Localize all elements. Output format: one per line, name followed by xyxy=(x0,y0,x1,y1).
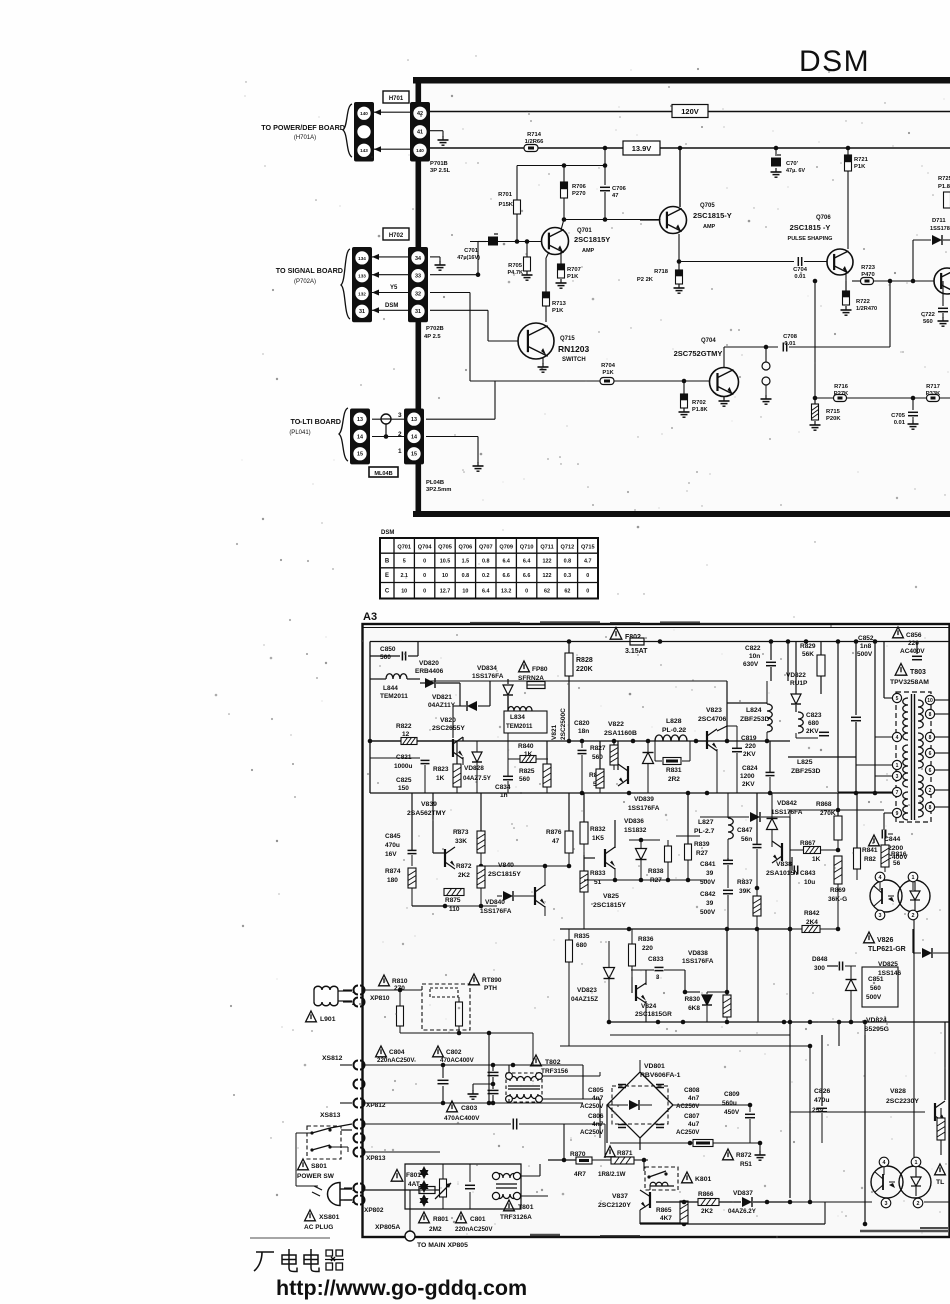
svg-text:2: 2 xyxy=(352,1199,355,1205)
wire: y1143 branch xyxy=(607,1105,750,1145)
transistor Q715 xyxy=(518,323,554,359)
wire: x865 vertical xyxy=(863,1035,868,1226)
ground (Q715) xyxy=(538,363,549,372)
scan speckle xyxy=(215,55,950,1238)
svg-text:B: B xyxy=(385,559,390,565)
svg-text:132: 132 xyxy=(358,291,366,296)
capacitor C701 47u16V xyxy=(457,234,498,261)
transistor V820 2SC2655Y xyxy=(417,717,465,765)
svg-text:134: 134 xyxy=(358,256,366,261)
capacitor C801 220nAC250V xyxy=(455,1164,493,1233)
wire: Q706 emitter xyxy=(845,274,847,281)
transformer T802 TRF3156 xyxy=(506,1055,569,1103)
wire: LTI pin13 right to y381 xyxy=(426,381,495,419)
resistor R872 2K2 xyxy=(456,863,485,906)
svg-text:31: 31 xyxy=(359,309,365,315)
capacitor C70' 47u6V xyxy=(771,146,805,174)
resistor R721 P1K xyxy=(845,146,869,171)
svg-text:6.6: 6.6 xyxy=(523,573,531,579)
resistor R810 270 xyxy=(365,975,422,1033)
svg-text:Q710: Q710 xyxy=(520,545,534,551)
wire: LTI pin13 link xyxy=(372,418,404,420)
resistor R826 56 xyxy=(589,741,605,793)
ground (R715) xyxy=(810,421,821,430)
wire: x788 vertical xyxy=(787,642,789,682)
transistor V823 2SC4706 xyxy=(696,707,727,793)
wire: switch wires xyxy=(296,1124,352,1186)
wire: C708 up to emitter bus xyxy=(889,281,891,347)
capacitor C850 560 xyxy=(370,642,418,662)
label PL04B 3P2.5mm xyxy=(426,480,451,493)
wire: pin31 link DSM xyxy=(372,303,408,313)
svg-text:(PL041): (PL041) xyxy=(289,430,310,436)
svg-text:6.4: 6.4 xyxy=(482,589,490,595)
connector XP802 xyxy=(344,1184,384,1215)
svg-text:H702: H702 xyxy=(389,233,404,239)
capacitor C843 10u xyxy=(792,857,816,886)
diode VD837 04AZ6.2Y xyxy=(728,1190,757,1215)
wire: pin34 to ground xyxy=(430,257,440,262)
svg-text:2: 2 xyxy=(352,1001,355,1007)
wire: Q701 collector xyxy=(561,219,564,230)
svg-text:4.7: 4.7 xyxy=(584,559,592,565)
resistor R833 51 xyxy=(580,855,606,929)
diode VD838 1SS176FA xyxy=(682,950,729,1022)
fuse F802 3.15AT xyxy=(610,628,648,656)
svg-text:Q712: Q712 xyxy=(561,545,575,551)
svg-text:1: 1 xyxy=(398,448,402,455)
svg-text:62: 62 xyxy=(564,589,570,595)
resistor R828 220K xyxy=(565,642,593,742)
svg-text:TO LTI BOARD: TO LTI BOARD xyxy=(291,417,341,426)
svg-text:Q711: Q711 xyxy=(540,545,553,551)
ground (C802 area) xyxy=(468,1090,479,1099)
component loop frame wire xyxy=(405,1164,521,1209)
resistor R717 P33K xyxy=(926,384,941,402)
spark gap arrows xyxy=(420,1166,429,1207)
wire: xp813 wires xyxy=(364,1124,605,1158)
wire: pin42 to pin140 link xyxy=(374,109,410,115)
svg-text:0: 0 xyxy=(423,589,426,595)
resistor R825 560 xyxy=(519,741,551,793)
ground (LTI pin14) xyxy=(473,462,484,471)
svg-text:Q706: Q706 xyxy=(459,545,473,551)
capacitor C809 560u 450V xyxy=(673,1091,755,1143)
svg-text:6.6: 6.6 xyxy=(502,573,510,579)
svg-text:122: 122 xyxy=(543,559,552,565)
resistor R873 33K xyxy=(453,793,485,868)
node junction 13.9V/C706 xyxy=(603,146,608,151)
svg-text:133: 133 xyxy=(358,274,366,279)
capacitor C834 1n xyxy=(495,733,513,799)
resistor R822 12 xyxy=(370,723,417,745)
thermistor RT890 PTH xyxy=(422,974,502,1033)
wire: y1202 right xyxy=(790,1200,950,1205)
capacitor C806 4n7 AC250V xyxy=(580,1113,626,1136)
ground (test point) xyxy=(761,395,772,404)
resistor R872b R51 xyxy=(693,1140,762,1169)
varistor R801 2M2 xyxy=(419,1164,451,1233)
capacitor C822 10n 630V xyxy=(743,642,776,682)
resistor R832 1K5 xyxy=(580,793,606,855)
svg-text:A3: A3 xyxy=(363,611,377,623)
resistor R713 P1K xyxy=(543,292,567,322)
wire: x790 long vertical xyxy=(788,817,793,1198)
wire: 13.9V bus xyxy=(429,147,950,149)
inductor L901 xyxy=(306,986,352,1023)
optocoupler V826 TLP621-GR xyxy=(870,872,930,920)
transistor V821 2SC2500C xyxy=(551,708,628,786)
transistor Q704 xyxy=(710,368,739,397)
capacitor C824 1200 2KV xyxy=(740,741,775,793)
label P701B 3P 2.5L xyxy=(430,161,451,174)
wire: pin33 link xyxy=(372,272,408,278)
label TO POWER/DEF BOARD xyxy=(261,123,345,141)
capacitor C833 xyxy=(631,956,700,994)
pin numbers 3 2 1 xyxy=(398,412,402,455)
inductor L844 TEM2011 xyxy=(370,674,420,700)
resistor R839 R27 xyxy=(676,793,710,880)
svg-text:0: 0 xyxy=(423,573,426,579)
optocoupler (lower right) xyxy=(871,1157,931,1208)
svg-text:0: 0 xyxy=(586,589,589,595)
svg-text:12.7: 12.7 xyxy=(440,589,451,595)
resistor R836 220 xyxy=(629,929,654,977)
diode D711 1SS178F xyxy=(913,218,950,245)
svg-text:3: 3 xyxy=(398,412,402,419)
test point circles xyxy=(762,345,770,396)
wire: thick bottom border of upper schematic xyxy=(413,511,950,517)
resistor R837 39K xyxy=(737,879,761,1022)
svg-text:Q707: Q707 xyxy=(479,545,493,551)
wire: A3 bus y793 xyxy=(370,791,893,796)
wire: collector bus y219 xyxy=(562,217,660,222)
node label 120V xyxy=(672,105,708,118)
svg-text:ML04B: ML04B xyxy=(374,471,392,477)
wire: R870 bus y1160 xyxy=(548,1124,648,1162)
svg-text:L901: L901 xyxy=(320,1016,336,1023)
svg-text:2.1: 2.1 xyxy=(400,573,408,579)
resistor R874 180 xyxy=(385,868,416,906)
diode VD839 label xyxy=(628,796,660,812)
connector XP810 xyxy=(343,986,390,1008)
diode VD824 S5295G label xyxy=(864,1017,889,1033)
wire: 120V bus xyxy=(429,111,950,113)
svg-text:0.8: 0.8 xyxy=(564,559,572,565)
label R725 P1.8 xyxy=(938,176,950,208)
resistor R831 2R2 xyxy=(655,741,690,783)
wire: VD842 bus y817 xyxy=(790,808,884,817)
resistor R875 110 xyxy=(412,889,464,914)
resistor R827 560 xyxy=(590,741,618,770)
transistor Q706 xyxy=(827,249,853,275)
diode VD839 (bus) xyxy=(643,741,654,793)
label Q701 2SC1815Y AMP xyxy=(574,228,610,254)
ground (R718) xyxy=(674,284,685,293)
ground (R722) xyxy=(841,306,852,315)
svg-text:Q705: Q705 xyxy=(438,545,452,551)
connector XS812/XP812 xyxy=(322,1055,386,1109)
resistor R706 P270 xyxy=(561,166,587,220)
capacitor C845 470u 16V xyxy=(385,793,417,866)
brace for signal board xyxy=(341,249,350,319)
resistor (edge r1) xyxy=(937,1108,945,1155)
diode VD825 1SS146 xyxy=(878,929,950,977)
connector P701B right strip xyxy=(410,102,430,162)
wire: Q715 base from DSM pin xyxy=(488,312,518,342)
svg-text:XS812: XS812 xyxy=(322,1055,343,1062)
label Q705 2SC1815-Y AMP xyxy=(693,203,732,230)
svg-text:Q704: Q704 xyxy=(418,545,433,551)
wire: A3 bus y929 xyxy=(560,927,840,932)
bridge VD801 RBV606FA-1 xyxy=(607,1060,681,1150)
resistor R867 1K xyxy=(790,840,840,863)
svg-text:10.5: 10.5 xyxy=(440,559,451,565)
wire: 605 down to C706 xyxy=(604,148,606,185)
wire: Q705 collector to 13.9V xyxy=(678,146,683,207)
resistor R869 36K-G xyxy=(828,856,847,929)
label gddq chinese xyxy=(254,1249,344,1272)
wire: V839 bottom bus xyxy=(412,904,497,909)
capacitor D848 300 xyxy=(812,956,856,972)
svg-text:TO SIGNAL BOARD: TO SIGNAL BOARD xyxy=(276,266,343,275)
svg-text:0.8: 0.8 xyxy=(462,573,470,579)
svg-text:Q701: Q701 xyxy=(397,545,411,551)
svg-text:S801: S801 xyxy=(311,1163,327,1170)
wire: Q701 emitter to R713 xyxy=(546,252,549,292)
wire: A3 bus y1035 xyxy=(560,1022,865,1202)
wire: y880 branch xyxy=(584,878,707,883)
ground (R705) xyxy=(522,271,533,280)
connector left strip (to power/def board) xyxy=(354,102,374,162)
capacitor C841 39 500V xyxy=(700,858,733,888)
capacitor C803 470AC400V xyxy=(444,1101,517,1130)
label Q704 2SC752GTMY xyxy=(674,338,723,358)
svg-text:143: 143 xyxy=(360,148,368,153)
wire: R715 vertical drop xyxy=(813,279,818,398)
resistor R871 1R8/2.1W xyxy=(598,1146,634,1178)
label P702B 4P 2.5 xyxy=(424,326,444,340)
label DSM (table) xyxy=(381,530,394,536)
ground (C722) xyxy=(938,317,949,326)
resistor R718 P2 2K xyxy=(637,259,683,284)
switch S801 POWER SW xyxy=(297,1126,341,1180)
wire: x875 vertical xyxy=(874,642,876,793)
fuse FP80 SFRN2A xyxy=(508,661,548,689)
resistor R714 xyxy=(524,132,544,152)
resistor R715 P20K xyxy=(812,398,842,422)
svg-text:AC PLUG: AC PLUG xyxy=(304,1224,333,1231)
svg-text:TO MAIN XP805: TO MAIN XP805 xyxy=(417,1242,468,1249)
wire: xp812 top wire xyxy=(364,1063,583,1068)
wire: pin31 DSM to Q715 xyxy=(430,310,488,311)
diode VD820 ERB4406 xyxy=(415,660,460,706)
inductor L824 ZBF253D xyxy=(727,681,772,741)
transistor Q707 (edge) xyxy=(934,268,950,294)
capacitor C804 220nAC250V xyxy=(376,1046,449,1103)
wire: transformer left stubs xyxy=(838,642,892,831)
wire: R723 to right bus xyxy=(874,279,934,284)
svg-text:122: 122 xyxy=(543,573,552,579)
transformer T803 xyxy=(892,692,950,822)
label ML04B xyxy=(369,467,398,477)
wire: A3 box border xyxy=(363,624,950,1237)
wire: A3 bus y741 xyxy=(368,739,790,744)
title DSM xyxy=(799,45,870,78)
resistor R840 1K xyxy=(508,743,548,763)
inductor L834 TEM2011 xyxy=(490,681,547,733)
wire: y1033 branch xyxy=(400,1031,533,1065)
wire: RT890 drop xyxy=(488,1033,490,1103)
diode VD821 04AZ11Y xyxy=(428,694,490,738)
capacitor C805 4n7 AC250V xyxy=(580,1085,626,1111)
connector P702B right strip xyxy=(408,247,428,322)
resistor R865 4K7 xyxy=(656,1200,688,1223)
capacitor C821 1000u xyxy=(370,754,430,770)
wire: A3 bottom bus xyxy=(640,1202,825,1226)
svg-text:TO POWER/DEF BOARD: TO POWER/DEF BOARD xyxy=(261,123,345,132)
wire: pin33 to C701 xyxy=(430,242,486,278)
svg-text:140: 140 xyxy=(360,111,368,116)
diode VD834 1SS176FA xyxy=(472,665,513,710)
wire: R721 to Q706 collector xyxy=(847,171,849,249)
transistor V837 2SC2120Y xyxy=(598,1186,687,1225)
capacitor C852 1n8 500V xyxy=(851,635,874,792)
label H702 xyxy=(383,228,409,240)
capacitor C722 560 xyxy=(921,281,948,325)
svg-text:XS813: XS813 xyxy=(320,1112,341,1119)
svg-text:14: 14 xyxy=(357,434,363,440)
inductor C823 680 2KV coil xyxy=(796,712,829,738)
label TO SIGNAL BOARD xyxy=(276,266,343,285)
svg-text:C: C xyxy=(385,589,390,595)
svg-text:Q709: Q709 xyxy=(499,545,513,551)
resistor R705 P4.7K xyxy=(507,241,530,276)
wire: Q701 emitter to R707 xyxy=(560,252,562,264)
label Q715 RN1203 SWITCH xyxy=(558,336,589,363)
wire: x838 vertical xyxy=(837,642,839,793)
transistor V822 2SA1160B xyxy=(604,721,637,737)
label XP805A xyxy=(375,1190,410,1231)
svg-text:H701: H701 xyxy=(389,96,404,102)
svg-text:(P702A): (P702A) xyxy=(294,279,316,285)
wire: Q704 collector to C708 xyxy=(724,347,778,367)
wire: pin32 link YS xyxy=(372,285,408,296)
resistor R707 P1K xyxy=(558,264,581,280)
ground (C705) xyxy=(908,420,919,429)
svg-text:Q715: Q715 xyxy=(581,545,595,551)
svg-text:0.3: 0.3 xyxy=(564,573,572,579)
transistor V824 2SC1815GR xyxy=(632,970,672,1022)
ground (C70') xyxy=(771,168,782,177)
svg-text:15: 15 xyxy=(357,452,363,458)
wire: pin140b link xyxy=(374,146,410,152)
capacitor C808 4n7 AC250V xyxy=(656,1085,700,1111)
plug XS801 AC PLUG xyxy=(304,1183,352,1232)
transistor V840 2SC1815Y xyxy=(488,862,545,916)
inductor L825 ZBF253D xyxy=(788,757,856,775)
diode VD836 1S1832 xyxy=(624,818,660,880)
resistor R838 R27 xyxy=(648,840,672,884)
capacitor C706 xyxy=(600,186,627,219)
wire: thick top border of upper schematic xyxy=(413,77,950,84)
diode VD823 04AZ15Z xyxy=(571,941,615,1022)
svg-text:0.2: 0.2 xyxy=(482,573,490,579)
node label 13.9V xyxy=(623,141,660,155)
capacitor C844 2200 AC400V xyxy=(869,830,909,862)
brace for LTI board xyxy=(339,408,348,461)
wire: Q704 emitter xyxy=(723,397,725,399)
svg-text:1.5: 1.5 xyxy=(462,559,470,565)
capacitor C704 xyxy=(793,257,827,280)
wire: A3 bus y1022 xyxy=(607,1020,950,1025)
svg-text:0: 0 xyxy=(586,573,589,579)
resistor R722 1/2R470 xyxy=(843,281,878,312)
wire: y866 branch xyxy=(481,864,571,869)
inductor L827 PL-2.7 xyxy=(694,793,733,858)
wire: Q701 base bus xyxy=(470,239,541,244)
wire: bus y398 xyxy=(813,396,950,401)
wire: A3 top border double xyxy=(363,627,950,629)
svg-text:DSM: DSM xyxy=(385,303,398,309)
svg-text:1: 1 xyxy=(352,989,355,995)
inductor L828 PL-0.22 xyxy=(655,718,687,741)
wire: pin32 YS to y381 xyxy=(430,293,470,382)
resistor R702 P1.8K xyxy=(681,381,708,413)
wire: pin41 to ground xyxy=(430,131,443,137)
wire: y165 branch xyxy=(517,163,607,168)
connector left strip (to LTI board) xyxy=(350,409,370,465)
wire: Q705 base xyxy=(640,219,660,222)
svg-text:13.2: 13.2 xyxy=(501,589,512,595)
fuse F801 4AT xyxy=(364,1170,447,1194)
resistor R866 2K2 xyxy=(698,1191,719,1215)
capacitor C807 4u7 AC250V xyxy=(656,1113,700,1136)
diode VD840 1SS176FA xyxy=(480,891,535,915)
relay K801 xyxy=(644,1160,711,1190)
table DSM transistor voltages xyxy=(380,538,598,599)
label url go-gddq xyxy=(276,1276,527,1300)
wire: LTI pin14 right to ground xyxy=(426,437,478,464)
wire: A3 left internal bus xyxy=(369,642,371,794)
capacitor C842 39 500V xyxy=(700,890,733,929)
node TO MAIN XP805 xyxy=(405,1231,468,1249)
resistor R704 P1K xyxy=(600,363,616,385)
ground (R872b) xyxy=(755,1151,766,1160)
wire: Q715 emitter xyxy=(542,357,544,364)
label H701 xyxy=(383,91,409,103)
ground (R702) xyxy=(679,408,690,417)
label TLP (edge) xyxy=(935,1164,946,1186)
wire: opto1 to opto2 link xyxy=(913,920,915,1157)
transformer T801 TRF3126A xyxy=(492,1164,548,1221)
connector XS813/XP813 xyxy=(320,1112,386,1162)
ground (pin34) xyxy=(435,261,446,270)
ground (R707) xyxy=(556,279,567,288)
node phi symbol xyxy=(381,414,391,439)
resistor R841 R82 xyxy=(854,793,878,880)
svg-text:http://www.go-gddq.com: http://www.go-gddq.com xyxy=(276,1276,527,1300)
svg-text:62: 62 xyxy=(544,589,550,595)
svg-text:10: 10 xyxy=(462,589,468,595)
connector PL04B right strip xyxy=(404,409,424,465)
wire: Q705 emitter bus y261 xyxy=(679,234,794,262)
resistor R876 47 xyxy=(546,793,573,866)
transistor Q701 xyxy=(542,228,569,255)
wire: D711 drop xyxy=(912,240,914,281)
resistor R816 56 xyxy=(881,830,907,872)
svg-text:(H701A): (H701A) xyxy=(294,135,316,141)
